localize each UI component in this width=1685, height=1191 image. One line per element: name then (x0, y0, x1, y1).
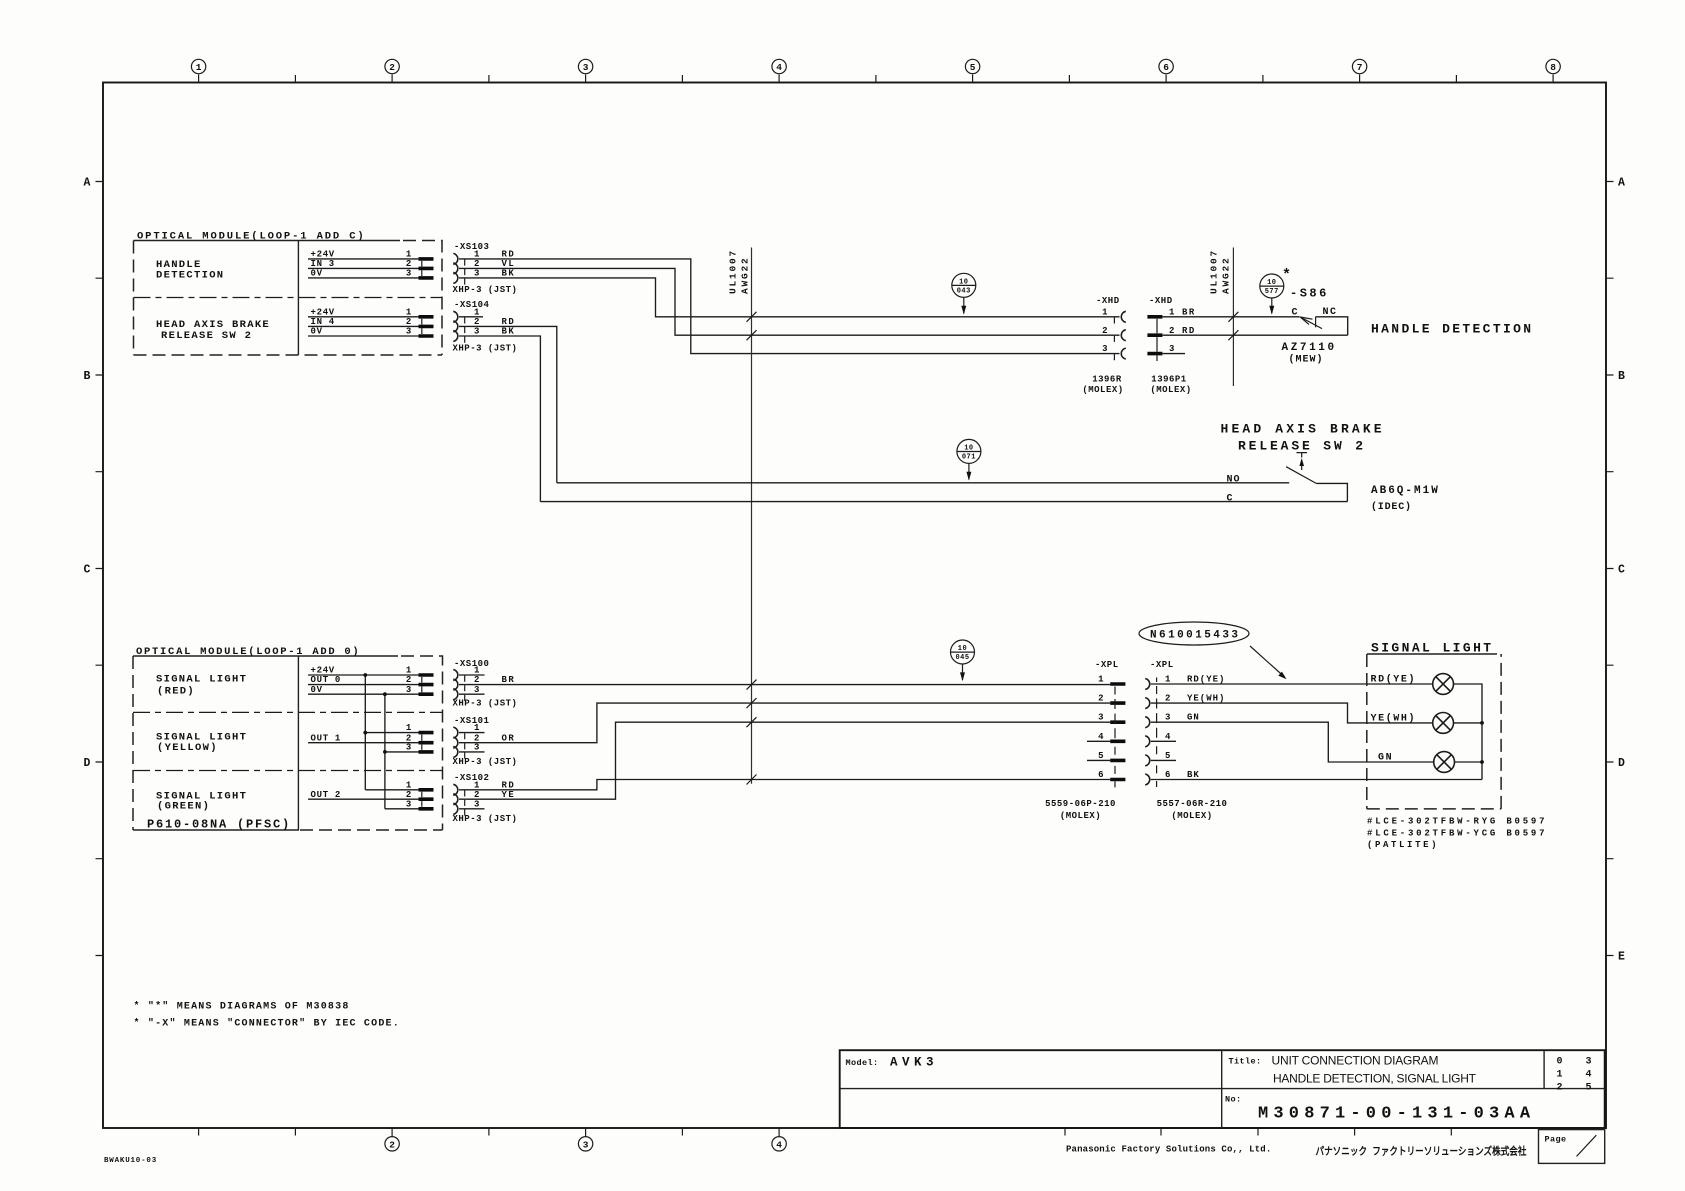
wire brake C (540, 501, 1347, 503)
svg-text:577: 577 (1265, 288, 1279, 296)
title block outline (840, 1050, 1605, 1128)
module divider dash-dot 2 (133, 770, 443, 772)
svg-text:BK: BK (502, 327, 516, 337)
svg-text:4: 4 (1586, 1070, 1592, 1081)
svg-text:1: 1 (406, 250, 412, 260)
svg-text:3: 3 (1098, 713, 1104, 723)
svg-text:-XS100: -XS100 (454, 659, 489, 669)
connector XS104 receptacle contacts (453, 311, 458, 341)
svg-text:* "-X" MEANS "CONNECTOR" BY IE: * "-X" MEANS "CONNECTOR" BY IEC CODE. (134, 1018, 400, 1030)
svg-text:3: 3 (474, 327, 480, 337)
svg-text:1: 1 (406, 723, 412, 733)
svg-text:BR: BR (1182, 307, 1196, 317)
svg-text:YE(WH): YE(WH) (1187, 694, 1225, 704)
svg-text:1: 1 (1098, 675, 1104, 685)
svg-text:4: 4 (1165, 732, 1171, 742)
stub XS102-3 (459, 808, 485, 810)
svg-text:E: E (1618, 951, 1625, 964)
svg-text:XHP-3 (JST): XHP-3 (JST) (453, 757, 518, 767)
LOWER MODULE (133, 646, 517, 832)
svg-text:HEAD AXIS BRAKE: HEAD AXIS BRAKE (1221, 422, 1385, 437)
stub XHD-3 (1162, 353, 1185, 355)
svg-text:OR: OR (502, 733, 516, 743)
junction lamp YE to bus (1480, 721, 1484, 725)
svg-text:1: 1 (1169, 307, 1175, 317)
svg-text:OUT 1: OUT 1 (311, 733, 342, 743)
XS104 pin rows in box (308, 317, 419, 336)
svg-text:3: 3 (474, 799, 480, 809)
cable boundary line 2 (1232, 248, 1234, 387)
XHD plug pin bars 1396P1 (1147, 317, 1162, 354)
svg-text:XHP-3 (JST): XHP-3 (JST) (453, 344, 518, 354)
stub XS100-1 (459, 674, 485, 676)
svg-text:YE(WH): YE(WH) (1371, 713, 1417, 725)
actuator press arrow (1301, 461, 1303, 470)
svg-text:2: 2 (389, 1139, 395, 1150)
svg-text:C: C (84, 564, 91, 577)
svg-text:No:: No: (1225, 1095, 1242, 1105)
svg-text:0: 0 (1557, 1057, 1563, 1068)
svg-text:1: 1 (1165, 675, 1171, 685)
svg-text:3: 3 (1586, 1057, 1592, 1068)
svg-text:-XHD: -XHD (1096, 296, 1120, 306)
svg-text:*: * (1282, 267, 1291, 284)
svg-text:C: C (1227, 493, 1234, 504)
svg-text:B: B (84, 370, 91, 383)
page border frame (103, 83, 1606, 1129)
switch S86 NC fixed contact (1315, 317, 1317, 328)
switch SW2 frame to C (1316, 483, 1347, 501)
title block column divider (1221, 1050, 1223, 1128)
svg-text:-XS103: -XS103 (454, 242, 489, 252)
bottom ruler circled numbers (385, 1137, 786, 1151)
svg-text:XHP-3 (JST): XHP-3 (JST) (453, 814, 518, 824)
stub XS101-1 (459, 732, 485, 734)
svg-text:BWAKU10-03: BWAKU10-03 (104, 1157, 157, 1165)
wire XPL-2 to lamp YE (1151, 703, 1433, 723)
XS103 header pin bars (419, 259, 434, 278)
svg-text:IN 4: IN 4 (311, 317, 335, 327)
cable ref circle 10/043 (952, 273, 976, 314)
cable boundary line 1 (751, 248, 753, 784)
svg-text:NO: NO (1227, 475, 1241, 486)
svg-text:パナソニック ファクトリーソリューションズ株式会社: パナソニック ファクトリーソリューションズ株式会社 (1316, 1145, 1527, 1159)
svg-text:BK: BK (1187, 770, 1200, 780)
svg-text:RELEASE SW 2: RELEASE SW 2 (1238, 439, 1366, 454)
svg-text:GN: GN (1187, 713, 1200, 723)
wire XS103-1 RD to XHD-3 (459, 259, 1120, 354)
XHD receptacle pin numbers (1102, 307, 1108, 354)
XS102 pin rows in box (308, 790, 419, 809)
svg-text:2: 2 (474, 790, 480, 800)
svg-text:-XPL: -XPL (1150, 660, 1174, 670)
svg-text:10: 10 (1267, 279, 1276, 287)
svg-text:A: A (84, 177, 91, 190)
junction +24V to XS101-1 (363, 673, 367, 677)
sheet numbers (1557, 1057, 1592, 1094)
connector XS102 receptacle contacts (453, 784, 458, 814)
internal 0V distribution vertical (384, 694, 386, 809)
stub XS100-3 (459, 693, 485, 695)
svg-text:2: 2 (474, 259, 480, 269)
wire XS103-2 VL to XHD-2 (459, 268, 1120, 335)
XPL plug pin bars 5559 (1110, 684, 1125, 780)
svg-text:6: 6 (1163, 62, 1169, 73)
svg-text:P610-08NA (PFSC): P610-08NA (PFSC) (147, 818, 291, 832)
svg-text:5559-06P-210: 5559-06P-210 (1045, 799, 1116, 809)
svg-text:4: 4 (1098, 732, 1104, 742)
svg-text:RD: RD (502, 250, 516, 260)
cable crossing slashes on line 1 (upper) (747, 312, 757, 340)
lamp return bus (1454, 684, 1483, 780)
svg-text:OUT 2: OUT 2 (311, 790, 342, 800)
lamp GN (1434, 752, 1455, 773)
svg-text:3: 3 (583, 1139, 589, 1150)
connector XS103 receptacle contacts (453, 253, 458, 283)
svg-text:Model:: Model: (846, 1058, 879, 1068)
svg-text:(PATLITE): (PATLITE) (1367, 840, 1437, 850)
svg-text:(RED): (RED) (157, 686, 195, 698)
svg-text:1396P1: 1396P1 (1151, 375, 1187, 385)
wire XPL-3 to lamp GN (1151, 722, 1434, 762)
svg-text:(GREEN): (GREEN) (157, 801, 210, 813)
svg-text:UNIT CONNECTION DIAGRAM: UNIT CONNECTION DIAGRAM (1272, 1054, 1439, 1068)
XS103 pin rows in box (308, 259, 419, 278)
svg-text:3: 3 (474, 743, 480, 753)
svg-text:RD: RD (502, 317, 516, 327)
svg-text:1: 1 (474, 723, 480, 733)
TITLE BLOCK (840, 1050, 1605, 1163)
svg-text:DETECTION: DETECTION (156, 270, 224, 282)
svg-text:XHP-3 (JST): XHP-3 (JST) (453, 285, 518, 295)
svg-text:2: 2 (406, 259, 412, 269)
svg-text:5: 5 (970, 62, 976, 73)
svg-text:A: A (1618, 177, 1625, 190)
stub XS104-1 (459, 316, 483, 318)
svg-text:2: 2 (1169, 326, 1175, 336)
junction lamp GN to bus (1480, 760, 1484, 764)
XS101 pin rows in box (308, 733, 419, 752)
wire XPL-1 to lamp RD (1151, 683, 1433, 685)
svg-text:+24V: +24V (311, 666, 335, 676)
svg-text:SIGNAL LIGHT: SIGNAL LIGHT (1371, 641, 1494, 656)
FOOTNOTES (134, 1001, 400, 1030)
module inner divider vertical (297, 241, 299, 356)
connector XS100 receptacle contacts (453, 670, 458, 700)
svg-text:3: 3 (406, 327, 412, 337)
svg-text:VL: VL (502, 259, 516, 269)
svg-text:2: 2 (406, 317, 412, 327)
svg-text:AVK3: AVK3 (890, 1056, 938, 1070)
pushbutton actuator symbol (1297, 453, 1308, 458)
svg-text:RD(YE): RD(YE) (1371, 674, 1417, 686)
svg-text:071: 071 (962, 454, 976, 462)
wire XS104-3 BK to brake C (459, 336, 540, 502)
wire XS102-2 YE to XPL-3 (459, 722, 1110, 799)
svg-text:3: 3 (474, 685, 480, 695)
svg-text:0V: 0V (311, 327, 323, 337)
svg-text:1: 1 (474, 250, 480, 260)
SIGNAL LIGHT BOX (1367, 641, 1545, 851)
svg-text:Page: Page (1545, 1135, 1567, 1145)
svg-text:+24V: +24V (311, 250, 335, 260)
svg-text:5557-06R-210: 5557-06R-210 (1157, 799, 1228, 809)
svg-text:M30871-00-131-03AA: M30871-00-131-03AA (1258, 1105, 1535, 1124)
XHD AREA (1082, 287, 1534, 396)
harness part callout N610015433 (1139, 622, 1287, 679)
internal +24V distribution vertical (364, 675, 366, 790)
svg-text:2: 2 (1098, 694, 1104, 704)
svg-text:(YELLOW): (YELLOW) (157, 742, 218, 754)
svg-text:-XPL: -XPL (1095, 660, 1119, 670)
svg-text:Title:: Title: (1229, 1057, 1262, 1067)
svg-text:AB6Q-M1W: AB6Q-M1W (1371, 485, 1440, 497)
wire brake NO (557, 482, 1289, 484)
svg-text:10: 10 (964, 445, 973, 453)
XHD plug pin numbers and wire colors (1169, 307, 1196, 354)
svg-text:D: D (84, 757, 91, 770)
wire XHD-1 BR to switch C (1162, 316, 1299, 318)
svg-text:-S86: -S86 (1290, 287, 1329, 301)
UPPER MODULE (134, 231, 518, 356)
bottom ruler ticks (199, 1128, 1452, 1136)
junction 0V to XS101-3 (383, 692, 387, 696)
svg-text:(MEW): (MEW) (1289, 354, 1324, 366)
XS101 header pin bars (419, 733, 434, 752)
svg-text:RD(YE): RD(YE) (1187, 675, 1225, 685)
svg-text:UL1007: UL1007 (728, 249, 739, 294)
switch SW2 movable arm (1286, 467, 1316, 484)
LOWER WIRES (459, 640, 1110, 809)
svg-text:-XS104: -XS104 (454, 300, 490, 310)
svg-text:5: 5 (1165, 751, 1171, 761)
svg-text:GN: GN (1378, 753, 1393, 764)
wire XS102-1 RD to XPL-6 (459, 780, 1110, 790)
optical module box outline (134, 240, 401, 242)
lamp RD (1433, 674, 1454, 695)
wire XPL-6 BK common return (1151, 779, 1482, 781)
XHD receptacle contacts 1396R (1121, 311, 1126, 359)
module divider dash-dot 1 (133, 711, 443, 713)
svg-text:2: 2 (1165, 694, 1171, 704)
sheet numbers cell (1543, 1050, 1545, 1088)
svg-text:2: 2 (474, 317, 480, 327)
svg-text:AWG22: AWG22 (1221, 256, 1232, 294)
svg-text:IN 3: IN 3 (311, 259, 335, 269)
svg-text:XHP-3 (JST): XHP-3 (JST) (453, 699, 518, 709)
svg-text:(MOLEX): (MOLEX) (1171, 811, 1212, 821)
svg-text:10: 10 (959, 279, 968, 287)
left ruler ticks (96, 182, 104, 956)
svg-text:1: 1 (196, 62, 202, 73)
svg-text:2: 2 (1102, 326, 1108, 336)
switch S86 movable arm with arrowhead (1300, 317, 1322, 329)
module divider dash-dot (134, 297, 443, 299)
stub XPL-5 right (1151, 759, 1176, 761)
svg-text:AWG22: AWG22 (740, 256, 751, 294)
svg-text:4: 4 (776, 62, 782, 73)
XS104 header pin bars (419, 317, 434, 336)
svg-text:5: 5 (1098, 751, 1104, 761)
XS100 header pin bars (419, 675, 434, 694)
svg-text:YE: YE (502, 790, 516, 800)
XPL wire color labels (1187, 675, 1225, 781)
svg-text:C: C (1618, 564, 1625, 577)
wire XHD-2 RD return from switch (1162, 334, 1347, 336)
XPL receptacle pin numbers (1165, 675, 1171, 781)
svg-text:3: 3 (474, 269, 480, 279)
XPL plug pin numbers (1098, 675, 1104, 781)
svg-text:-XS102: -XS102 (454, 773, 489, 783)
svg-text:HANDLE DETECTION, SIGNAL LIGHT: HANDLE DETECTION, SIGNAL LIGHT (1273, 1072, 1477, 1086)
svg-text:1: 1 (1102, 307, 1108, 317)
svg-text:BR: BR (502, 675, 516, 685)
XPL receptacle contacts 5557 (1145, 679, 1150, 786)
svg-text:(MOLEX): (MOLEX) (1060, 811, 1101, 821)
svg-text:2: 2 (406, 790, 412, 800)
svg-text:+24V: +24V (311, 307, 335, 317)
svg-text:4: 4 (776, 1139, 782, 1150)
svg-text:1: 1 (406, 666, 412, 676)
svg-text:3: 3 (406, 269, 412, 279)
svg-text:BK: BK (502, 269, 516, 279)
page slash (1577, 1135, 1597, 1156)
svg-text:-XHD: -XHD (1149, 296, 1173, 306)
module inner divider vertical (297, 656, 299, 830)
svg-text:3: 3 (583, 62, 589, 73)
lamp YE (1433, 713, 1454, 734)
optical module box outline (133, 655, 398, 657)
svg-text:0V: 0V (311, 269, 323, 279)
BRAKE SECTION (540, 422, 1439, 514)
cable ref circle 10/071 (957, 439, 981, 480)
top ruler circled numbers (191, 59, 1560, 73)
svg-text:7: 7 (1357, 62, 1363, 73)
title block row divider (840, 1088, 1605, 1090)
svg-text:3: 3 (406, 799, 412, 809)
wire XS100-2 BR to XPL-1 (459, 684, 1110, 686)
svg-text:5: 5 (1586, 1083, 1592, 1094)
right ruler ticks (1606, 182, 1614, 956)
svg-text:8: 8 (1550, 62, 1556, 73)
svg-text:3: 3 (1169, 344, 1175, 354)
svg-text:045: 045 (955, 654, 969, 662)
svg-text:1: 1 (474, 666, 480, 676)
stub XPL-4 right (1151, 740, 1176, 742)
svg-text:3: 3 (1102, 344, 1108, 354)
svg-text:OUT 0: OUT 0 (311, 675, 342, 685)
svg-text:2: 2 (406, 675, 412, 685)
svg-text:Panasonic Factory Solutions Co: Panasonic Factory Solutions Co,, Ltd. (1066, 1145, 1271, 1155)
top ruler ticks (199, 75, 1554, 83)
svg-text:UL1007: UL1007 (1209, 249, 1220, 294)
svg-text:-XS101: -XS101 (454, 716, 490, 726)
svg-text:3: 3 (406, 685, 412, 695)
svg-text:6: 6 (1165, 770, 1171, 780)
svg-text:10: 10 (958, 645, 967, 653)
svg-text:(MOLEX): (MOLEX) (1150, 385, 1191, 395)
svg-text:D: D (1618, 757, 1625, 770)
svg-text:6: 6 (1098, 770, 1104, 780)
svg-text:3: 3 (1165, 713, 1171, 723)
signal light unit dashed box (1367, 653, 1497, 655)
svg-text:2: 2 (389, 62, 395, 73)
svg-text:1: 1 (1557, 1070, 1563, 1081)
cable crossing slashes on line 2 (1228, 312, 1238, 340)
cable ref circle 10/045 (951, 640, 975, 681)
stub XPL-4 left (1087, 740, 1110, 742)
svg-text:1: 1 (406, 307, 412, 317)
XPL AREA (1045, 622, 1482, 821)
svg-text:SIGNAL LIGHT: SIGNAL LIGHT (156, 674, 247, 686)
UPPER WIRES (459, 248, 1291, 784)
wire XS103-3 BK to XHD-1 (459, 278, 1120, 317)
svg-text:HANDLE DETECTION: HANDLE DETECTION (1371, 322, 1534, 337)
svg-text:2: 2 (1557, 1083, 1563, 1094)
svg-text:0V: 0V (311, 685, 323, 695)
wire XS104-2 RD to brake NO (459, 326, 557, 482)
svg-text:1396R: 1396R (1092, 375, 1122, 385)
XS100 pin rows in box (308, 675, 419, 694)
svg-text:RELEASE SW 2: RELEASE SW 2 (161, 330, 252, 342)
svg-text:1: 1 (474, 307, 480, 317)
svg-text:(MOLEX): (MOLEX) (1082, 385, 1123, 395)
cable crossing slashes on line 1 (lower) (747, 680, 757, 785)
stub XPL-5 left (1087, 759, 1110, 761)
svg-text:C: C (1292, 308, 1299, 319)
svg-text:2: 2 (474, 675, 480, 685)
svg-text:(IDEC): (IDEC) (1371, 501, 1412, 513)
svg-text:B: B (1618, 370, 1625, 383)
svg-text:043: 043 (957, 288, 971, 296)
wire XS101-2 OR to XPL-2 (459, 703, 1110, 743)
svg-text:* "*" MEANS DIAGRAMS OF M30838: * "*" MEANS DIAGRAMS OF M30838 (134, 1001, 350, 1013)
cable ref circle 10/577 (1260, 274, 1284, 315)
connector XS101 receptacle contacts (453, 727, 458, 757)
svg-text:AZ7110: AZ7110 (1282, 342, 1337, 354)
svg-text:3: 3 (406, 743, 412, 753)
svg-text:RD: RD (1182, 326, 1196, 336)
XS102 header pin bars (419, 790, 434, 809)
stub XS101-3 (459, 751, 485, 753)
page box (1539, 1130, 1605, 1164)
